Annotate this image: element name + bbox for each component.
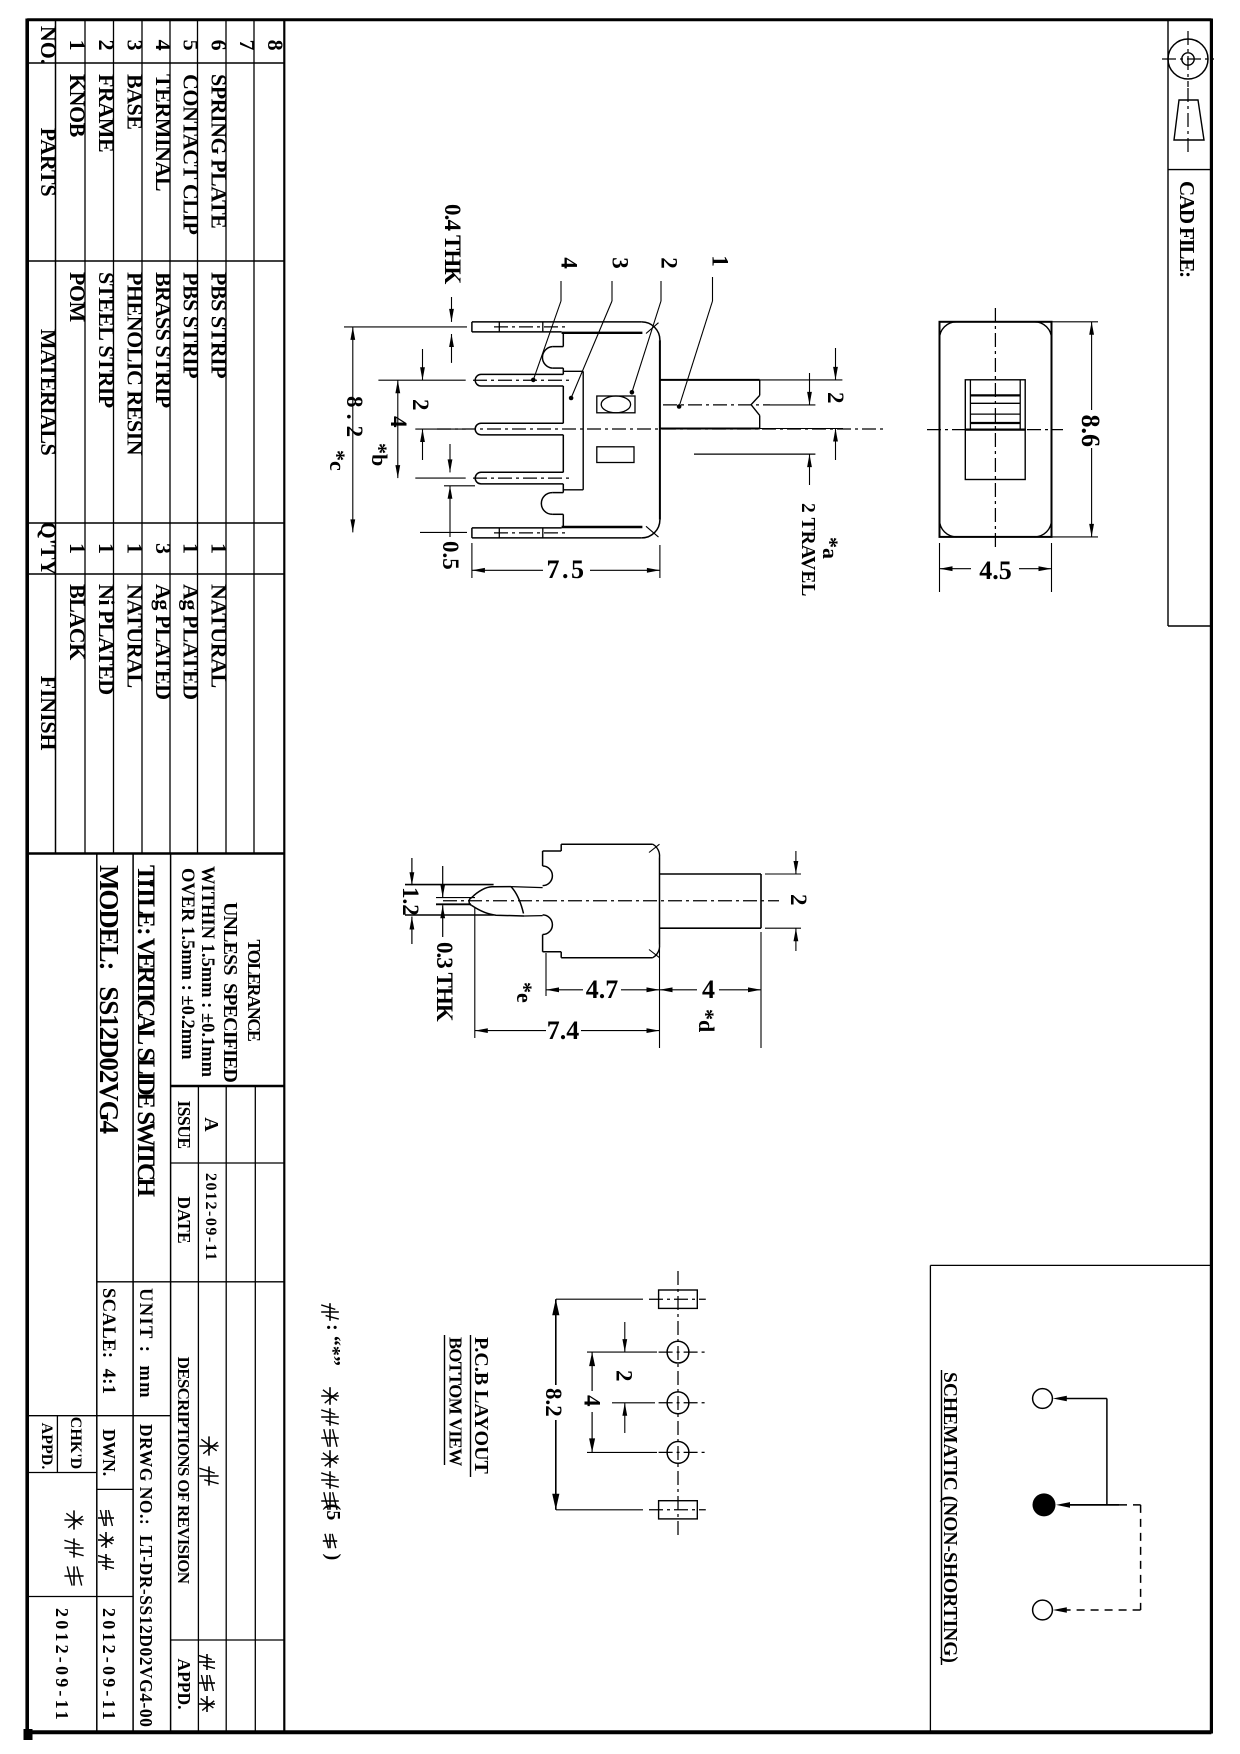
svg-text:DESCRIPTIONS OF REVISION: DESCRIPTIONS OF REVISION <box>174 1357 193 1585</box>
svg-text:1: 1 <box>179 543 204 554</box>
svg-text:PARTS: PARTS <box>36 128 61 197</box>
svg-text:STEEL STRIP: STEEL STRIP <box>94 272 119 408</box>
svg-text:APPD.: APPD. <box>38 1423 55 1470</box>
svg-text:2: 2 <box>94 40 119 51</box>
svg-text:BRASS STRIP: BRASS STRIP <box>151 272 176 408</box>
svg-text:5: 5 <box>179 40 204 51</box>
svg-text:3: 3 <box>123 40 148 51</box>
svg-text:1: 1 <box>123 543 148 554</box>
svg-text:0.5: 0.5 <box>438 541 463 570</box>
svg-text:NO.: NO. <box>36 26 61 64</box>
svg-text:7.5: 7.5 <box>547 555 587 584</box>
svg-text:1.2: 1.2 <box>398 887 423 916</box>
svg-text:FRAME: FRAME <box>94 74 119 152</box>
svg-text:2: 2 <box>408 399 433 411</box>
svg-text:*e: *e <box>512 982 537 1003</box>
svg-text:2: 2 <box>612 1370 637 1382</box>
svg-text:2: 2 <box>657 257 682 269</box>
svg-text:Ag PLATED: Ag PLATED <box>179 584 204 700</box>
svg-text:0.4 THK: 0.4 THK <box>440 204 465 284</box>
svg-text:UNIT : mm: UNIT : mm <box>135 1288 155 1399</box>
svg-text:P.C.B LAYOUT: P.C.B LAYOUT <box>470 1337 492 1475</box>
svg-text:4.5: 4.5 <box>979 556 1012 585</box>
svg-text:OVER 1.5mm : ±0.2mm: OVER 1.5mm : ±0.2mm <box>177 868 197 1060</box>
svg-text:TERMINAL: TERMINAL <box>151 74 176 191</box>
svg-text:4.7: 4.7 <box>586 975 619 1004</box>
svg-text:CONTACT CLIP: CONTACT CLIP <box>179 74 204 235</box>
svg-text:SCALE: 4:1: SCALE: 4:1 <box>98 1288 118 1395</box>
svg-text:7.4: 7.4 <box>547 1016 580 1045</box>
svg-text:DATE: DATE <box>174 1196 194 1243</box>
svg-text:UNLESS SPECIFIED: UNLESS SPECIFIED <box>219 902 241 1082</box>
svg-text:): ) <box>322 1554 344 1561</box>
svg-text:8.2: 8.2 <box>541 1388 566 1417</box>
svg-text:0.3 THK: 0.3 THK <box>432 942 457 1022</box>
svg-text:MATERIALS: MATERIALS <box>36 329 61 456</box>
svg-text:3: 3 <box>151 543 176 554</box>
svg-text:7: 7 <box>235 40 260 51</box>
svg-text:CHK'D: CHK'D <box>67 1417 84 1469</box>
svg-text:ISSUE: ISSUE <box>174 1100 194 1148</box>
svg-text:MODEL: SS12D02VG4: MODEL: SS12D02VG4 <box>94 865 124 1133</box>
svg-text:2012-09-11: 2012-09-11 <box>99 1608 119 1723</box>
svg-text:*c: *c <box>325 450 350 471</box>
svg-text:NATURAL: NATURAL <box>207 584 232 688</box>
svg-text:(5: (5 <box>322 1504 344 1521</box>
svg-text:KNOB: KNOB <box>65 74 90 138</box>
svg-text:: “*”: : “*” <box>322 1324 344 1366</box>
svg-text:PBS STRIP: PBS STRIP <box>179 272 204 378</box>
svg-text:WITHIN 1.5mm : ±0.1mm: WITHIN 1.5mm : ±0.1mm <box>197 866 217 1078</box>
svg-text:Ni PLATED: Ni PLATED <box>94 584 119 695</box>
svg-text:8.6: 8.6 <box>1076 415 1105 448</box>
svg-text:1: 1 <box>708 255 733 267</box>
svg-text:DRWG NO.: LT-DR-SS12D02VG4-00: DRWG NO.: LT-DR-SS12D02VG4-00 <box>136 1424 156 1727</box>
svg-text:PHENOLIC RESIN: PHENOLIC RESIN <box>123 272 148 456</box>
svg-text:POM: POM <box>65 272 90 323</box>
svg-text:4: 4 <box>702 975 715 1004</box>
svg-text:BOTTOM VIEW: BOTTOM VIEW <box>446 1337 466 1466</box>
svg-text:4: 4 <box>580 1395 605 1407</box>
svg-text:A: A <box>200 1117 222 1132</box>
svg-text:*a: *a <box>818 537 843 559</box>
svg-text:4: 4 <box>386 416 411 428</box>
svg-text:SPRING PLATE: SPRING PLATE <box>207 74 232 228</box>
svg-text:1: 1 <box>65 543 90 554</box>
svg-text:1: 1 <box>207 543 232 554</box>
svg-text:FINISH: FINISH <box>36 676 61 751</box>
svg-text:BLACK: BLACK <box>65 584 90 660</box>
svg-text:4: 4 <box>557 257 582 269</box>
svg-text:TITLE : VERTICAL SLIDE SWIT: TITLE : VERTICAL SLIDE SWITCH <box>132 865 159 1198</box>
svg-text:2012-09-11: 2012-09-11 <box>202 1173 219 1262</box>
svg-text:*d: *d <box>694 1009 719 1032</box>
svg-text:2012-09-11: 2012-09-11 <box>52 1608 72 1723</box>
svg-text:TOLERANCE: TOLERANCE <box>244 939 264 1041</box>
svg-text:Ag PLATED: Ag PLATED <box>151 584 176 700</box>
svg-text:4: 4 <box>151 40 176 51</box>
svg-text:PBS STRIP: PBS STRIP <box>207 272 232 378</box>
svg-text:8: 8 <box>263 40 288 51</box>
svg-text:APPD.: APPD. <box>174 1658 194 1709</box>
svg-text:DWN.: DWN. <box>99 1429 119 1476</box>
svg-text:1: 1 <box>65 40 90 51</box>
svg-text:2: 2 <box>786 894 811 906</box>
svg-text:1: 1 <box>94 543 119 554</box>
svg-text:*b: *b <box>367 443 392 466</box>
svg-text:NATURAL: NATURAL <box>123 584 148 688</box>
svg-text:CAD FILE:: CAD FILE: <box>1175 181 1199 277</box>
svg-text:Q'TY: Q'TY <box>36 522 61 576</box>
svg-text:2: 2 <box>823 392 848 404</box>
svg-text:3: 3 <box>607 257 632 269</box>
svg-text:6: 6 <box>207 40 232 51</box>
svg-text:8.2: 8.2 <box>342 396 367 443</box>
svg-text:BASE: BASE <box>123 74 148 129</box>
svg-text:2 TRAVEL: 2 TRAVEL <box>797 503 818 596</box>
